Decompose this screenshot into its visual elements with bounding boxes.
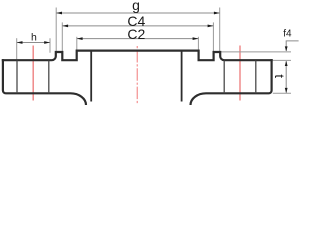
wire extension line h left bbox=[16, 38, 18, 59]
node arrowhead g right bbox=[214, 12, 220, 15]
node arrowhead C2 left bbox=[77, 37, 83, 40]
wire extension line flange top level (for f4/t) bbox=[273, 59, 291, 61]
wire dimension line h bbox=[17, 42, 50, 44]
node arrowhead f4 down bbox=[285, 46, 288, 51]
node flange axis centerline (red dash-dot) bbox=[136, 46, 138, 103]
node bolt-hole centerline left (red) bbox=[32, 46, 34, 101]
node arrowhead h left bbox=[17, 41, 23, 44]
wire flange left edge and hub fillet bbox=[3, 59, 86, 105]
node arrowhead t down bbox=[285, 88, 288, 93]
wire dimension line t bbox=[285, 61, 287, 92]
node bolt-hole centerline right (red) bbox=[239, 46, 241, 101]
svg-text:h: h bbox=[31, 31, 37, 43]
wire bolt hole wall right-right bbox=[255, 61, 257, 94]
node arrowhead C4 right bbox=[208, 25, 214, 28]
wire bolt hole wall right-left bbox=[223, 61, 225, 94]
node arrowhead C2 right bbox=[193, 37, 199, 40]
wire extension line C2 left bbox=[76, 37, 78, 50]
node label t bbox=[272, 74, 287, 78]
wire bore line right bbox=[181, 52, 183, 102]
wire extension line g left bbox=[55, 8, 57, 52]
wire flange right edge and hub fillet bbox=[191, 59, 272, 105]
wire leader line f4 bbox=[286, 41, 299, 51]
node arrowhead C4 left bbox=[62, 25, 68, 28]
wire bore line left bbox=[90, 52, 92, 102]
node arrowhead g left bbox=[56, 12, 62, 15]
wire extension line back face level (for t) bbox=[273, 92, 291, 94]
wire extension line h right bbox=[49, 38, 51, 53]
wire dimension line C4 bbox=[62, 25, 213, 27]
wire flange top profile with groove and spigot bbox=[2, 51, 273, 61]
node arrowhead h right bbox=[44, 41, 50, 44]
wire extension line C4 right bbox=[212, 22, 214, 51]
wire extension line spigot level (for f4) bbox=[221, 51, 292, 53]
wire dimension line g bbox=[56, 12, 220, 14]
wire dimension line C2 bbox=[77, 38, 199, 40]
svg-text:C2: C2 bbox=[127, 26, 145, 42]
node arrowhead f4 up bbox=[285, 61, 288, 66]
svg-text:f4: f4 bbox=[283, 28, 292, 39]
wire extension line C2 right bbox=[197, 37, 199, 50]
svg-text:t: t bbox=[272, 74, 287, 78]
svg-text:g: g bbox=[132, 0, 140, 13]
wire bolt hole wall left-left bbox=[16, 61, 18, 94]
wire bolt hole wall left-right bbox=[48, 61, 50, 94]
wire extension line g right bbox=[219, 8, 221, 52]
wire extension line C4 left bbox=[61, 22, 63, 51]
